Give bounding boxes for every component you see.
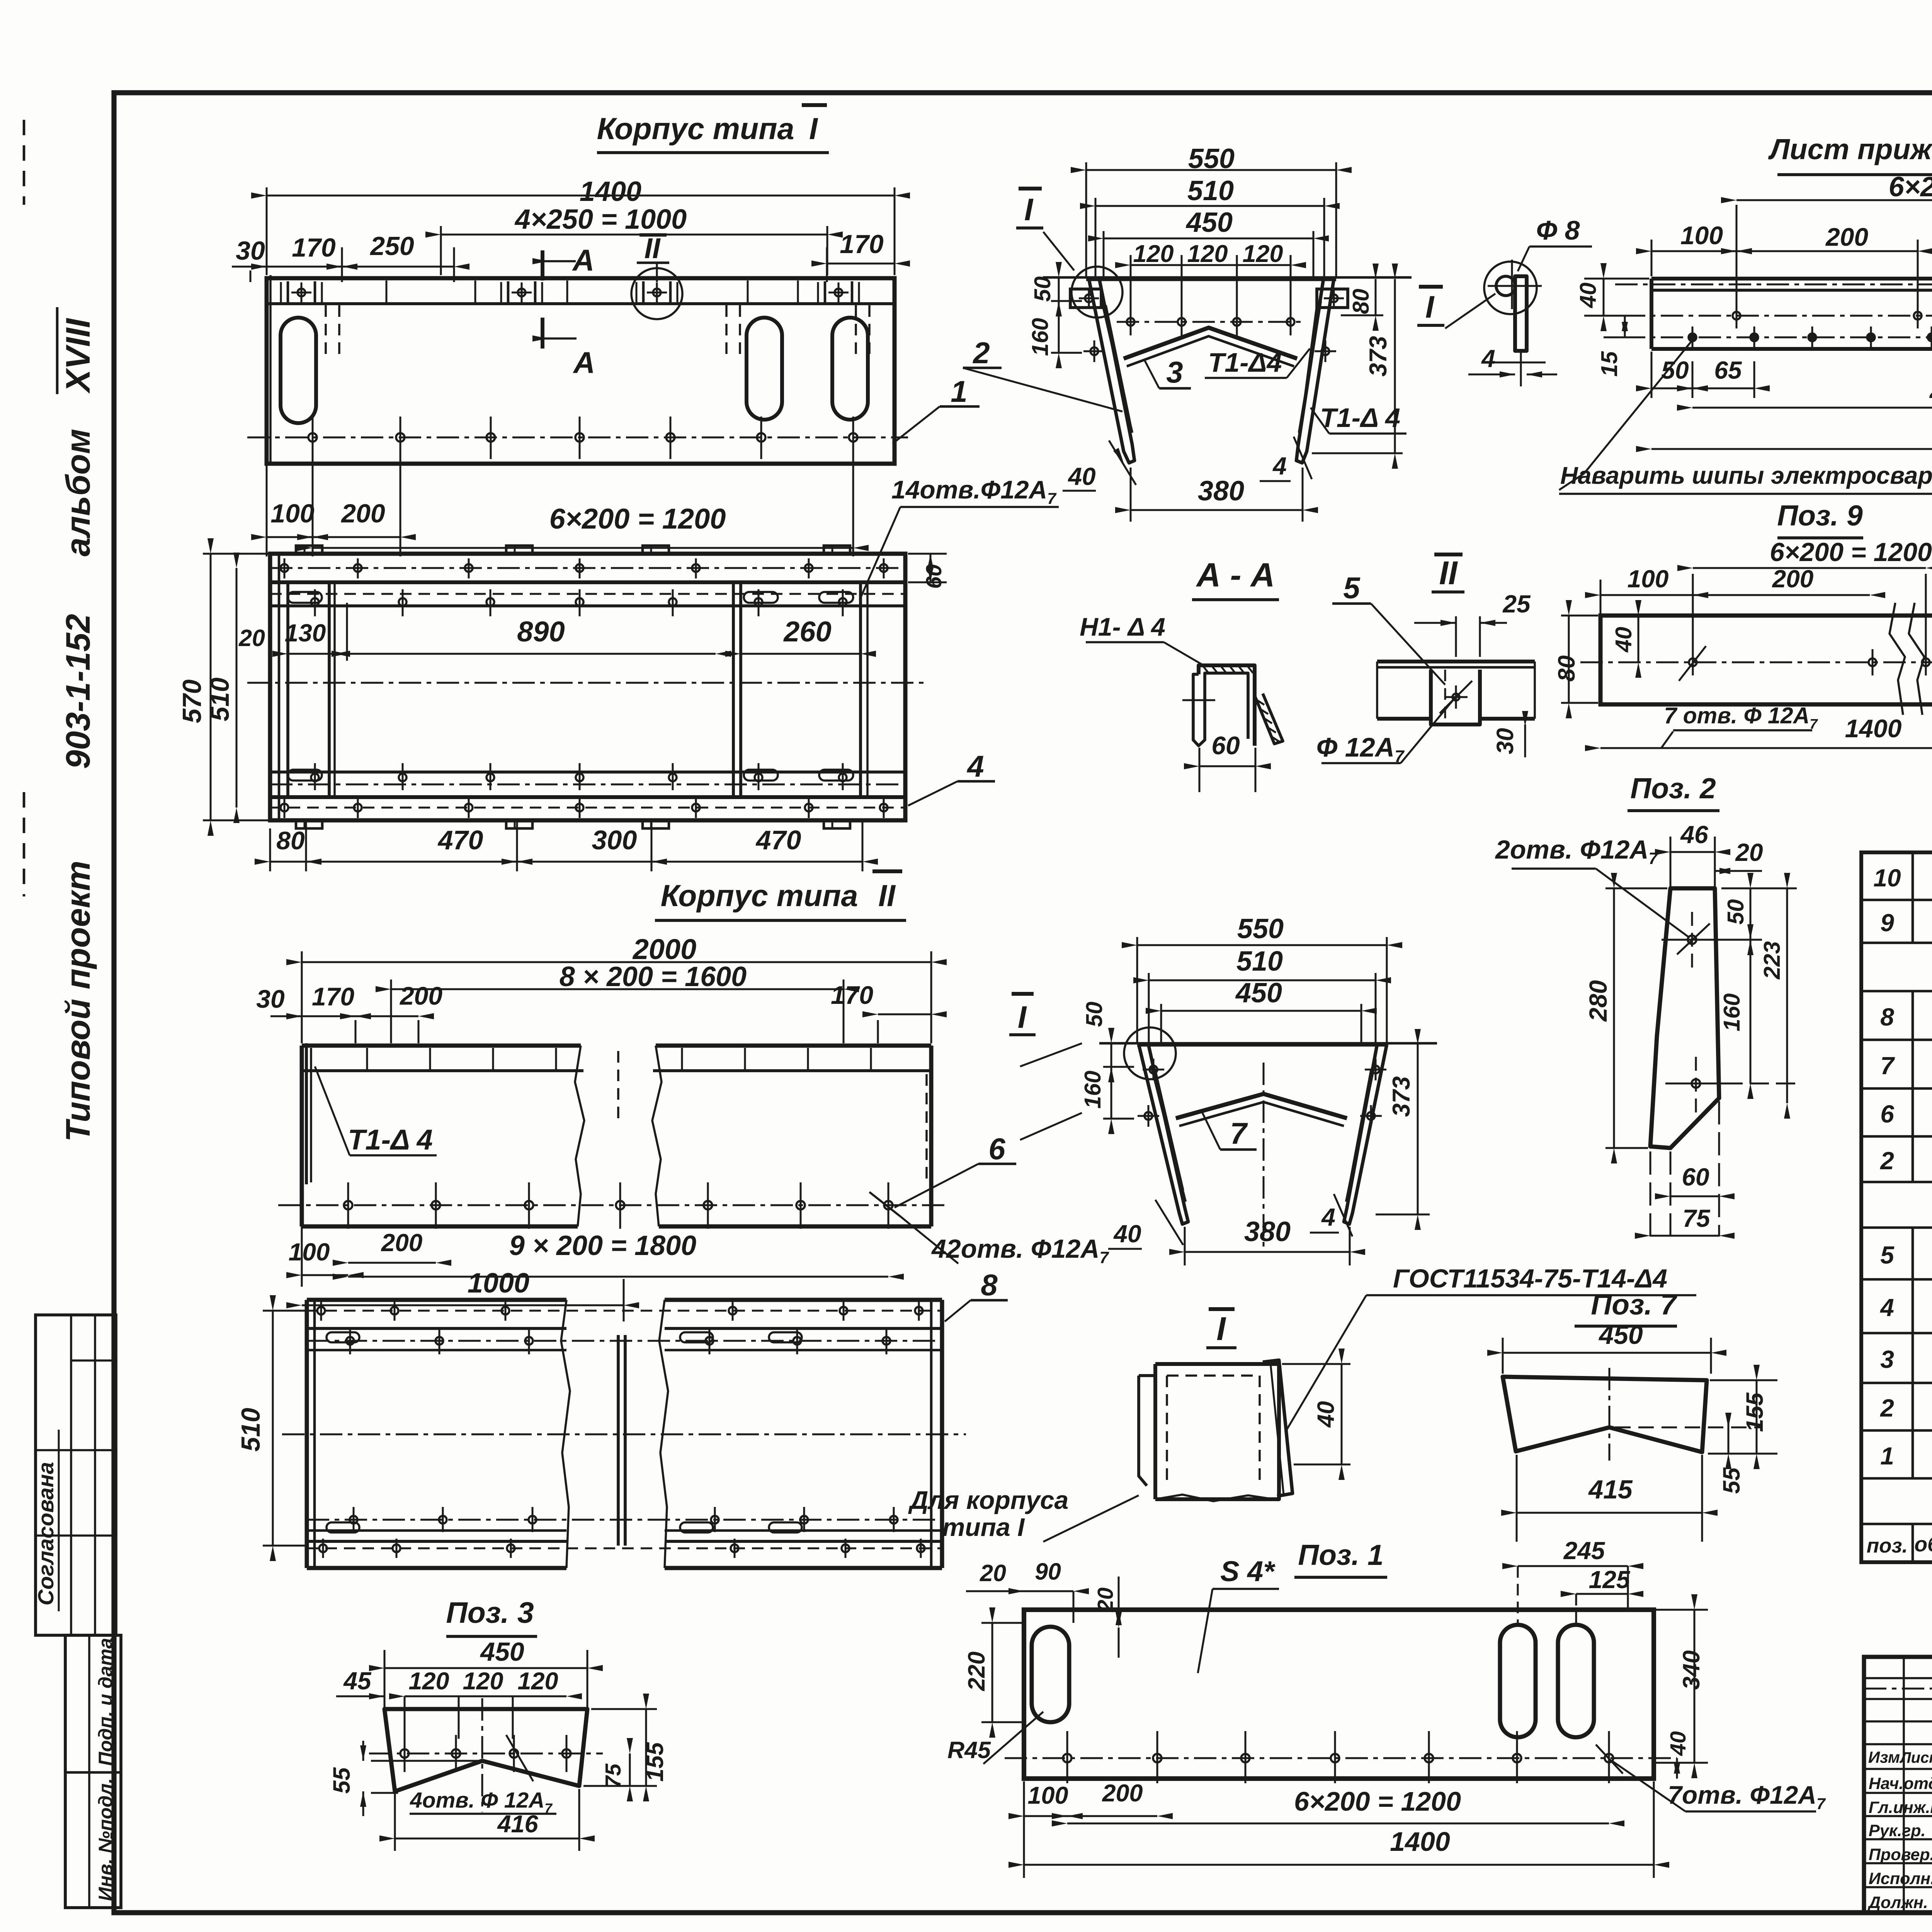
svg-text:4: 4 [1879,1294,1894,1321]
dimension 60 plan view band [908,554,947,589]
centre line view D [282,1434,966,1435]
slots Поз.1 [1032,1625,1594,1737]
svg-text:30: 30 [236,236,265,265]
svg-text:75: 75 [1682,1204,1711,1232]
svg-text:510: 510 [236,1408,265,1452]
svg-text:15: 15 [1597,351,1622,377]
svg-text:Корпус типа: Корпус типа [597,111,794,146]
dimension 373 section F right [1312,264,1403,469]
view: clip section А-А [1182,665,1283,746]
dimension 4 section F foot [1260,437,1312,481]
svg-text:I: I [1024,192,1034,227]
dimension 6x200=1200 view A [297,459,869,556]
title Корпус типа II [655,871,906,920]
chevron pos.7 in section I [1176,1094,1347,1126]
dimension 260 plan view [725,616,876,657]
centre line plan view [247,682,927,684]
svg-text:Гл.инж.пр: Гл.инж.пр [1869,1798,1932,1817]
svg-text:120: 120 [463,1668,503,1695]
svg-text:Подп. и дата: Подп. и дата [95,1638,116,1766]
svg-text:100: 100 [1680,221,1723,250]
dimension 25 II detail [1414,590,1531,657]
svg-text:Инв. №подл.: Инв. №подл. [95,1778,116,1901]
svg-text:2: 2 [1880,1147,1894,1175]
view: Корпус типа II front — outline with break [302,1043,931,1226]
dimension 20 130 plan view [238,619,350,657]
hole row view L [1623,327,1932,348]
detail circle I section I [1124,1027,1176,1079]
svg-text:40: 40 [1575,282,1601,308]
tabs on plan view edges [296,546,850,828]
dimension 4 of Ф8 detail [1468,345,1557,378]
svg-text:50: 50 [1030,276,1055,302]
dimensions 80 40 Поз.9 [1553,600,1641,718]
dimensions 245 125 Поз.1 [1502,1537,1643,1623]
svg-text:Поз. 9: Поз. 9 [1777,499,1863,532]
title Лист прижимной боковой [1768,133,1932,175]
svg-text:альбом: альбом [59,429,97,556]
hidden dashed lines under clips view A [326,305,869,355]
svg-text:100: 100 [289,1238,330,1266]
svg-text:обозначение: обозначение [1914,1532,1932,1556]
svg-text:170: 170 [831,981,873,1009]
svg-text:20: 20 [1735,838,1763,866]
svg-text:170: 170 [840,230,884,259]
svg-text:9: 9 [1880,909,1894,937]
dimension 55 Поз.3 [328,1741,487,1816]
svg-text:200: 200 [1102,1780,1143,1807]
view: section Корпус типа I (U-shape) [1043,277,1412,463]
view: Лист прижимной bar [1615,267,1932,355]
svg-text:Рук.гр.: Рук.гр. [1869,1821,1926,1840]
svg-text:60: 60 [922,564,946,589]
holes view D row1 [317,1301,923,1321]
svg-text:200: 200 [1772,565,1814,593]
svg-text:6×200 = 1200: 6×200 = 1200 [1770,537,1932,567]
svg-text:R45: R45 [947,1737,991,1763]
clips on top flange of view A [281,281,859,304]
svg-text:223: 223 [1759,941,1785,980]
bolt holes plan view bottom row [281,798,888,818]
view: I detail of pressing sheet edge with rod Ф8 [1417,260,1546,386]
svg-text:4: 4 [1481,345,1495,372]
svg-text:7 отв. Ф 12А7: 7 отв. Ф 12А7 [1664,703,1818,732]
svg-text:6: 6 [988,1132,1005,1166]
svg-text:Лист: Лист [1899,1749,1932,1766]
dimensions 50 160 section I [1020,1002,1134,1140]
svg-text:890: 890 [517,616,565,648]
title Поз. 1 [1294,1539,1387,1577]
svg-text:Для корпуса: Для корпуса [908,1486,1068,1514]
bolt holes plan view top row [281,558,888,578]
dimension 155 Поз.7 [1708,1365,1777,1469]
leader label 8 view D [945,1268,1008,1321]
svg-text:120: 120 [1242,240,1283,267]
dimensions 30 170 250 ... 170 view A [232,230,910,282]
svg-text:510: 510 [205,677,235,721]
svg-text:260: 260 [783,616,831,648]
dimensions 100 200 view L [1636,221,1932,305]
svg-text:903-1-152: 903-1-152 [59,614,97,769]
svg-text:Лист прижимной боковой: Лист прижимной боковой [1768,133,1932,165]
holes in section F [1079,288,1344,362]
svg-text:80: 80 [276,826,305,855]
svg-text:200: 200 [381,1229,423,1257]
svg-text:6: 6 [1880,1100,1894,1128]
title Поз. 2 [1628,772,1719,811]
dimension 280 Поз.2 [1584,873,1667,1163]
svg-text:Т1-Δ 4: Т1-Δ 4 [348,1124,433,1156]
svg-text:416: 416 [497,1811,538,1838]
svg-text:200: 200 [340,499,385,528]
label 14 отв. Ф12А7 with leader [860,475,1059,600]
svg-text:Поз. 1: Поз. 1 [1298,1539,1383,1571]
svg-text:160: 160 [1027,318,1053,356]
dimension 40 section F foot [1063,440,1136,491]
svg-text:65: 65 [1714,356,1742,384]
label 42 отв Ф12А7 view C [869,1192,1109,1267]
label ГОСТ11534-75-Т14-Δ4 [1287,1264,1696,1430]
bolt holes plan view third row [311,763,847,790]
dash-dot band lines view D [307,1310,942,1312]
label 4отв Ф12А7 Поз.3 [410,1735,556,1816]
leader label 4 plan view [908,749,995,806]
dimension 8x200=1600 view C [376,961,859,1043]
svg-text:II: II [878,878,896,913]
svg-text:20×65 = 1300: 20×65 = 1300 [1929,374,1932,404]
parts table rows content [1873,855,1932,1518]
title II detail [1432,554,1464,592]
view: Поз.7 trapezoid [1503,1368,1762,1461]
holes section I [1138,1059,1386,1127]
title block header row labels [1868,1747,1932,1767]
svg-text:373: 373 [1388,1076,1415,1117]
view: Поз.2 plate [1650,888,1719,1148]
svg-text:245: 245 [1563,1537,1605,1565]
parts table grid [1861,852,1932,1562]
left margin box Подп. и дата / Инв. № подл. [65,1635,121,1908]
svg-text:А: А [573,345,595,379]
label 7 отв Ф12А7 Поз.9 [1662,646,1818,748]
leader label 6 view C [895,1132,1016,1207]
svg-text:120: 120 [1187,240,1228,267]
label Ф12А7 II detail [1316,699,1454,766]
svg-text:470: 470 [437,825,483,855]
dimension 40 I detail [1282,1349,1350,1480]
dimensions 30 170 200 170 view C [256,981,947,1043]
leader label 1 view A [893,374,980,444]
svg-text:60: 60 [1682,1163,1709,1191]
dimension 415 Поз.7 [1501,1455,1718,1542]
tick marks top strip view C [367,1048,871,1070]
svg-text:40: 40 [1113,1220,1141,1248]
dimensions 20 90 top-left Поз.1 [966,1558,1089,1623]
svg-text:55: 55 [1718,1467,1745,1494]
holes row Поз.1 [1005,1731,1677,1783]
svg-text:6×200 = 1200: 6×200 = 1200 [549,503,726,535]
svg-text:120: 120 [408,1668,449,1695]
svg-text:II: II [1439,555,1458,592]
svg-text:4: 4 [1321,1203,1335,1231]
dimension 890 plan view [332,603,731,661]
view: section Корпус типа II (U-shape) [1099,1043,1437,1224]
label Ф8 [1518,215,1592,271]
svg-text:450: 450 [1185,207,1233,238]
dimension 60 Поз.2 [1655,1101,1735,1236]
dimension 550 section F [1071,143,1352,276]
holes view D row4 [319,1539,925,1558]
view: Корпус типа II plan — outline with break [307,1300,942,1568]
dimension 100 200 below view A [251,459,416,556]
svg-text:373: 373 [1365,336,1392,376]
dimensions 50 223 160 Поз.2 [1719,873,1801,1119]
dimensions 100 200 9x200=1800 below view C [286,1226,904,1287]
svg-text:Н1- Δ 4: Н1- Δ 4 [1080,612,1165,641]
dimension 450 Поз.3 [369,1637,603,1707]
label 3 in section F [1145,355,1191,389]
svg-text:А - А: А - А [1196,556,1275,594]
svg-text:1400: 1400 [1845,714,1902,743]
clips in section F [1070,289,1348,308]
svg-text:90: 90 [1035,1558,1061,1585]
label 2отв Ф12А7 Поз.2 [1495,835,1689,937]
svg-text:125: 125 [1589,1566,1631,1594]
title Поз. 9 [1777,499,1863,538]
view: Корпус типа I plan — outline [270,554,905,820]
dimensions 40 4 380 section I [1108,1194,1365,1265]
title Корпус типа I [597,105,829,153]
svg-text:30: 30 [1492,728,1518,754]
label T1-D4 view C [315,1066,437,1156]
svg-text:450: 450 [1235,978,1282,1009]
dimension 20x65=1300 view L [1677,361,1932,460]
svg-text:2: 2 [972,336,990,370]
dimension 20 Поз.2 [1715,838,1763,874]
dimension 20 vertical Поз.1 [1093,1577,1122,1658]
dimensions 45 120 120 120 Поз.3 [336,1667,582,1739]
dimension 373 section I [1376,1029,1430,1230]
svg-text:40: 40 [1067,463,1095,490]
svg-text:Должн.: Должн. [1867,1893,1928,1912]
svg-text:Корпус типа: Корпус типа [661,878,858,913]
label I section view C [1009,994,1036,1035]
oval slots view A [281,318,868,423]
svg-text:8: 8 [981,1268,998,1302]
centre line section I [1263,1063,1265,1248]
svg-text:75: 75 [601,1763,626,1788]
dimension 450 Поз.7 [1487,1320,1726,1374]
svg-text:170: 170 [312,982,354,1011]
title block frame [1864,1657,1932,1913]
title А-А [1192,556,1279,600]
svg-text:450: 450 [480,1637,524,1667]
dimension 4x250=1000 view A [425,204,843,275]
svg-text:1400: 1400 [1390,1827,1450,1857]
svg-text:200: 200 [1825,223,1868,251]
svg-text:7: 7 [1230,1116,1248,1150]
svg-text:7отв. Ф12А7: 7отв. Ф12А7 [1668,1781,1826,1813]
svg-text:XVIII: XVIII [59,318,97,394]
svg-text:S 4*: S 4* [1220,1555,1276,1587]
svg-text:Ф 12А7: Ф 12А7 [1316,732,1405,766]
svg-text:170: 170 [292,233,336,262]
svg-text:380: 380 [1198,476,1244,507]
title Поз. 7 [1575,1288,1678,1326]
svg-text:5: 5 [1343,571,1361,605]
svg-text:Изм: Изм [1868,1748,1900,1766]
view: Корпус типа I front — part outline [267,275,895,466]
svg-text:Типовой проект: Типовой проект [59,861,97,1142]
svg-text:45: 45 [343,1667,372,1695]
svg-text:510: 510 [1236,946,1283,977]
svg-text:8 × 200 = 1600: 8 × 200 = 1600 [560,961,747,992]
svg-text:1: 1 [1880,1442,1894,1470]
dimensions 80 470 300 470 below plan [255,820,878,871]
svg-text:7: 7 [1880,1052,1895,1080]
dimension 30 II detail [1492,711,1528,757]
svg-text:6×200 = 1200: 6×200 = 1200 [1294,1786,1461,1816]
svg-text:1: 1 [951,374,967,408]
svg-text:20: 20 [238,625,265,651]
svg-text:4: 4 [1272,452,1287,480]
svg-text:Нач.отд.: Нач.отд. [1869,1774,1932,1793]
svg-text:130: 130 [285,619,326,647]
labels T1-D4 in section F [1205,347,1406,434]
svg-text:Поз. 7: Поз. 7 [1591,1288,1678,1321]
svg-text:100: 100 [1027,1782,1068,1809]
svg-text:380: 380 [1244,1216,1291,1247]
svg-text:поз.: поз. [1867,1534,1908,1557]
svg-text:470: 470 [755,825,801,855]
dimension 450 section I [1146,978,1377,1043]
detail circle II around clip [631,268,682,319]
dimension 510 section F [1080,175,1340,276]
svg-text:10: 10 [1873,864,1901,892]
svg-text:Поз. 3: Поз. 3 [446,1596,534,1629]
parts table column lines [1913,852,1932,1562]
svg-text:4×250 = 1000: 4×250 = 1000 [514,204,687,235]
dimensions 50 160 section F [1027,262,1082,368]
dimension 550 section I [1122,913,1402,1043]
title block left grid [1864,1657,1932,1913]
svg-text:Согласована: Согласована [34,1462,58,1605]
svg-text:3: 3 [1880,1345,1894,1373]
dimension 510 plan view [205,553,240,823]
svg-text:1400: 1400 [580,176,641,207]
svg-text:А: А [572,243,594,277]
stud row (шипы) view L [1623,303,1932,328]
svg-text:50: 50 [1082,1002,1107,1027]
svg-text:I: I [1216,1311,1226,1347]
svg-text:550: 550 [1237,913,1284,944]
svg-text:14отв.Ф12А7: 14отв.Ф12А7 [891,475,1057,507]
svg-text:25: 25 [1502,590,1531,618]
note Наварить шипы электросваркой [1559,340,1932,494]
view: I detail bracket sketch [1139,1360,1293,1501]
svg-text:300: 300 [592,825,637,855]
dimension 220 Поз.1 [963,1607,1022,1738]
dimensions 40 15 view L left [1575,263,1649,377]
dimension 120 120 120 section F [1115,240,1306,309]
view: II detail rail with clip plate [1377,662,1535,724]
svg-text:200: 200 [399,981,442,1010]
bolt holes plan view second row [311,589,847,616]
dimensions 100 200 Поз.9 [1585,565,1885,614]
svg-text:2: 2 [1880,1394,1894,1422]
svg-text:30: 30 [256,985,285,1013]
svg-text:415: 415 [1588,1475,1633,1504]
svg-text:4: 4 [966,749,984,783]
holes Поз.3 [369,1698,603,1812]
holes Поз.9 [1689,649,1930,675]
label 7 section I [1201,1110,1257,1150]
svg-text:1000: 1000 [468,1268,529,1299]
svg-text:Наварить шипы электросваркой h: Наварить шипы электросваркой h ≈ 3мм [1560,462,1932,489]
label R45 Поз.1 [947,1712,1043,1764]
dimension 80 section F right [1341,264,1383,331]
svg-text:I: I [1018,1000,1027,1035]
dimension 55 Поз.7 [1718,1413,1745,1494]
view: Поз.9 bar [1580,603,1932,715]
label II above detail circle [637,232,669,282]
dimensions 50 65 view L [1636,352,1770,398]
dimension 510 section I [1133,946,1391,1043]
view: Поз.1 plate outline [1024,1610,1654,1779]
svg-text:Провер.: Провер. [1869,1845,1932,1864]
svg-text:570: 570 [177,679,207,723]
dimension 60 А-А [1184,731,1271,792]
hidden dashed line in break view C [617,1051,619,1123]
dimension 6x200=1200 view L [1721,172,1932,340]
dimension 6x200=1200 Поз.9 [1677,537,1932,649]
label I left of section F [1016,189,1074,270]
dimensions 100 200 6x200 1400 below Поз.1 [1009,1780,1669,1878]
svg-text:450: 450 [1598,1320,1643,1350]
bolt hole row view A [247,417,908,459]
view: Поз.3 trapezoid plate [384,1709,587,1791]
svg-text:Т1-Δ 4: Т1-Δ 4 [1320,403,1400,433]
section mark A-A lower [532,318,595,379]
holes Поз.2 [1662,912,1762,1113]
left margin box Согласована [34,1315,116,1635]
dimensions 340 40 right Поз.1 [1656,1594,1708,1779]
bolt hole row view C [278,1182,947,1229]
svg-text:2отв. Ф12А7: 2отв. Ф12А7 [1495,835,1659,867]
dimensions 155 75 Поз.3 [583,1694,668,1801]
dimension 1400 view A [251,176,910,275]
leader label 2 to section leg [963,336,1122,412]
svg-text:40: 40 [1313,1401,1339,1428]
svg-text:100: 100 [1628,565,1669,593]
svg-text:60: 60 [1211,731,1240,760]
dimension 416 Поз.3 [379,1789,595,1851]
title block signature rows [1867,1771,1932,1913]
upper dash-dot lines plan view [270,567,905,569]
svg-text:155: 155 [1742,1392,1768,1432]
dimension 1400* view L [1636,286,1932,460]
svg-text:160: 160 [1719,993,1745,1032]
title I (detail sketch) [1206,1309,1236,1348]
svg-text:120: 120 [1133,240,1173,267]
svg-text:220: 220 [963,1651,990,1691]
label S4* [1198,1555,1279,1673]
chevron pos.3 in section F [1124,328,1297,366]
label 7отв Ф12А7 Поз.1 [1596,1745,1826,1813]
dimension 46 Поз.2 [1655,821,1730,887]
section mark A-A upper [532,243,594,281]
label Н1-Δ4 [1080,612,1206,667]
svg-text:46: 46 [1680,821,1708,849]
